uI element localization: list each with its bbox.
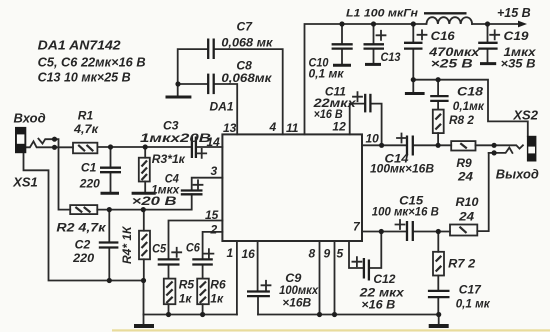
svg-text:16: 16: [242, 247, 256, 261]
svg-text:C1: C1: [81, 161, 97, 175]
svg-text:R10: R10: [456, 195, 479, 209]
svg-text:C5: C5: [152, 242, 166, 256]
svg-text:C2: C2: [75, 238, 91, 252]
svg-text:100мк×16В: 100мк×16В: [370, 162, 434, 176]
svg-text:C19: C19: [504, 29, 529, 43]
svg-text:R5: R5: [179, 278, 195, 292]
svg-text:15: 15: [205, 208, 219, 222]
svg-text:0,1мк: 0,1мк: [453, 99, 485, 113]
svg-text:+15 В: +15 В: [497, 6, 531, 20]
svg-text:R8 2: R8 2: [449, 113, 474, 127]
svg-text:R4* 1К: R4* 1К: [120, 225, 134, 264]
svg-text:C18: C18: [457, 85, 483, 99]
svg-text:1мкх20В: 1мкх20В: [140, 131, 211, 145]
svg-text:XS1: XS1: [12, 175, 38, 190]
svg-text:24: 24: [458, 210, 474, 224]
svg-text:R9: R9: [456, 156, 472, 170]
svg-text:Вход: Вход: [14, 111, 46, 126]
svg-text:24: 24: [457, 170, 473, 184]
svg-text:C5, C6 22мк×16 В: C5, C6 22мк×16 В: [38, 55, 146, 70]
svg-text:4: 4: [269, 120, 277, 134]
svg-text:3: 3: [211, 164, 218, 178]
svg-text:C13 10 мк×25 В: C13 10 мк×25 В: [38, 70, 131, 85]
svg-text:10: 10: [366, 132, 380, 146]
svg-text:2: 2: [210, 223, 218, 237]
svg-text:DA1: DA1: [210, 100, 234, 114]
svg-text:0,1 мк: 0,1 мк: [456, 297, 491, 311]
svg-text:Выход: Выход: [496, 167, 539, 182]
svg-text:R6: R6: [210, 278, 226, 292]
svg-text:R2 4,7к: R2 4,7к: [56, 221, 106, 235]
svg-text:100 мк×16 В: 100 мк×16 В: [372, 205, 439, 219]
svg-text:0,068 мк: 0,068 мк: [221, 35, 273, 49]
svg-text:1: 1: [227, 246, 234, 260]
svg-text:1к: 1к: [210, 292, 224, 306]
svg-text:×20 В: ×20 В: [132, 194, 177, 208]
svg-text:×35 В: ×35 В: [501, 57, 536, 71]
svg-text:1к: 1к: [179, 292, 193, 306]
svg-text:4,7к: 4,7к: [73, 122, 99, 136]
svg-text:12: 12: [332, 120, 346, 134]
svg-text:L1 100 мкГн: L1 100 мкГн: [346, 8, 418, 20]
svg-text:C17: C17: [459, 283, 482, 297]
svg-text:R1: R1: [78, 108, 94, 122]
svg-text:14: 14: [207, 135, 221, 149]
svg-text:220: 220: [79, 177, 100, 191]
svg-text:9: 9: [324, 247, 331, 261]
svg-text:C13: C13: [381, 50, 401, 64]
svg-text:×16В: ×16В: [282, 296, 311, 310]
svg-text:C16: C16: [431, 29, 455, 43]
svg-text:XS2: XS2: [512, 108, 538, 123]
svg-text:13: 13: [223, 121, 237, 135]
svg-text:C12: C12: [373, 272, 395, 286]
svg-text:×25 В: ×25 В: [431, 57, 473, 71]
svg-text:R3*1к: R3*1к: [152, 152, 186, 166]
svg-text:220: 220: [72, 251, 94, 265]
svg-text:5: 5: [337, 247, 344, 261]
svg-text:C6: C6: [186, 241, 200, 255]
svg-text:0,1 мк: 0,1 мк: [309, 67, 345, 81]
svg-text:0,068мк: 0,068мк: [221, 71, 272, 85]
svg-text:8: 8: [309, 247, 316, 261]
svg-text:×16 В: ×16 В: [361, 298, 395, 312]
svg-text:DA1 AN7142: DA1 AN7142: [38, 38, 122, 53]
svg-text:R7 2: R7 2: [448, 257, 475, 271]
svg-text:11: 11: [286, 121, 299, 135]
svg-text:C7: C7: [237, 20, 254, 34]
